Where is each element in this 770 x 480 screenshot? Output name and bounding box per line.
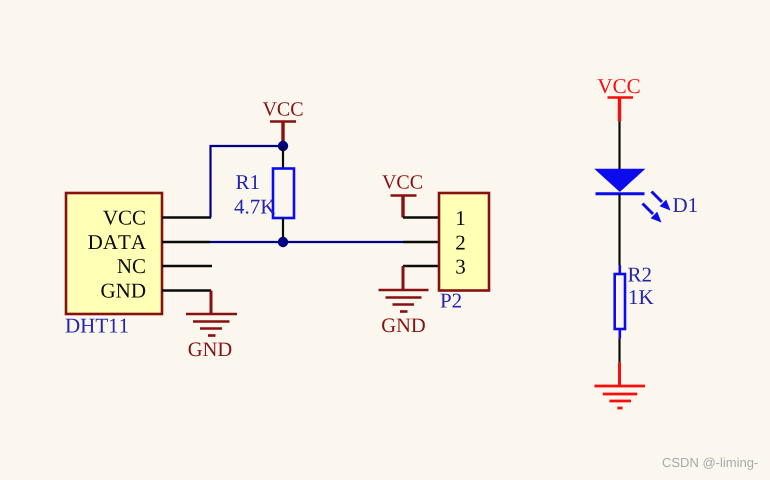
svg-text:VCC: VCC <box>103 206 146 230</box>
wire VCC net: DHT11 VCC pin up and right to R1 top <box>211 146 284 218</box>
svg-text:GND: GND <box>101 279 147 303</box>
pin stub 3 (P2) <box>403 265 439 267</box>
pin stub VCC (DHT11) <box>162 216 211 218</box>
svg-text:P2: P2 <box>440 289 462 313</box>
LED light arrow 2 <box>643 204 662 223</box>
pin stub GND (DHT11) <box>162 289 211 291</box>
svg-text:NC: NC <box>117 254 146 278</box>
junction node DATA/R1 bottom <box>278 237 288 247</box>
wire LED cathode to R2 <box>618 194 620 265</box>
resistor R2 body <box>615 274 625 329</box>
pin stub 1 (P2) <box>403 216 439 218</box>
wire DHT11 GND pin down <box>210 291 213 315</box>
svg-text:DATA: DATA <box>88 230 147 254</box>
svg-text:VCC: VCC <box>262 99 303 121</box>
svg-text:GND: GND <box>188 339 232 361</box>
wire VCC to LED anode <box>618 121 620 169</box>
component DHT11 body <box>66 193 162 314</box>
power port VCC (P2 pin 1) <box>382 172 423 218</box>
power port VCC (above R1) <box>262 99 303 147</box>
pin stub NC (DHT11) <box>162 265 212 267</box>
wire P2 pin 3 down to ground <box>402 266 405 290</box>
ground symbol GND (P2) <box>379 290 429 312</box>
svg-text:CSDN @-liming-: CSDN @-liming- <box>662 455 758 470</box>
component P2 body <box>439 193 489 291</box>
svg-text:VCC: VCC <box>597 74 640 98</box>
svg-text:1K: 1K <box>628 285 654 309</box>
svg-text:R2: R2 <box>628 263 653 287</box>
wire to ground (red segment) <box>618 362 621 386</box>
svg-text:4.7K: 4.7K <box>234 195 275 219</box>
svg-text:3: 3 <box>455 255 466 279</box>
svg-text:DHT11: DHT11 <box>65 314 129 338</box>
resistor R2 top lead <box>618 265 621 274</box>
resistor R1 body <box>273 169 294 219</box>
wire DATA net to P2 pin 2 <box>210 241 403 243</box>
wire R1 bottom lead <box>282 218 284 242</box>
junction node VCC/R1 top <box>278 141 288 151</box>
wire R2 to ground (black segment) <box>618 338 620 362</box>
svg-text:R1: R1 <box>236 170 261 194</box>
svg-text:1: 1 <box>455 206 466 230</box>
svg-text:GND: GND <box>381 315 425 337</box>
ground symbol GND (DHT11) <box>186 314 237 336</box>
svg-text:VCC: VCC <box>382 172 423 194</box>
pin stub DATA (DHT11) <box>162 241 210 243</box>
wire R1 top lead <box>282 146 284 169</box>
svg-text:2: 2 <box>455 231 466 255</box>
LED light arrow 1 <box>652 192 671 211</box>
pin stub 2 (P2) <box>403 241 439 243</box>
resistor R2 bottom lead <box>618 329 621 338</box>
ground symbol GND (LED branch, red) <box>594 386 645 408</box>
LED D1 body <box>594 169 645 194</box>
svg-text:D1: D1 <box>673 193 699 217</box>
power port VCC (LED branch, red) <box>597 74 640 121</box>
